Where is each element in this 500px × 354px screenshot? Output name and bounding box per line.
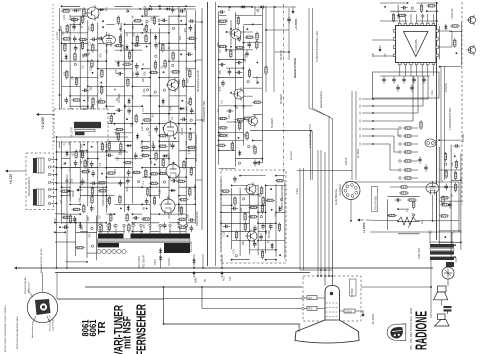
resistor	[187, 37, 197, 39]
svg-text:470: 470	[259, 192, 262, 197]
transistor BC148 sieb	[244, 182, 256, 196]
capacitor	[65, 126, 69, 133]
wire	[169, 60, 195, 62]
wire	[258, 211, 266, 213]
junction	[100, 82, 102, 84]
dashed block ABLENKEINHEIT	[26, 153, 54, 210]
junction	[120, 208, 122, 210]
IC pin wire	[438, 30, 452, 32]
wire	[380, 20, 408, 22]
junction	[243, 67, 245, 69]
transformer TON-NST bar1	[430, 244, 454, 248]
resistor	[256, 31, 258, 41]
junction	[69, 95, 71, 97]
junction	[436, 20, 438, 22]
dashed divider	[52, 4, 54, 150]
resistor	[221, 190, 231, 192]
junction	[173, 162, 175, 164]
junction	[270, 188, 272, 190]
tuner control wire	[308, 8, 310, 108]
junction	[141, 23, 143, 25]
resistor	[145, 7, 147, 17]
junction	[220, 222, 222, 224]
wire	[429, 232, 431, 244]
junction	[350, 220, 352, 222]
junction	[218, 149, 220, 151]
capacitor	[119, 180, 123, 187]
capacitor	[127, 169, 131, 176]
wire	[258, 240, 285, 242]
junction	[265, 231, 267, 233]
junction	[220, 211, 222, 213]
CRT grid electrode	[326, 311, 339, 313]
resistor	[234, 196, 236, 206]
resistor	[98, 190, 108, 192]
wire	[142, 15, 159, 17]
terminal	[119, 152, 121, 154]
capacitor	[72, 9, 79, 13]
IC pin wire	[416, 14, 418, 23]
wire	[106, 167, 114, 169]
tap terminal	[159, 224, 161, 226]
wire	[390, 10, 416, 12]
junction	[79, 222, 81, 224]
cable wire	[311, 131, 313, 180]
junction	[231, 204, 233, 206]
wire	[106, 23, 114, 25]
junction	[59, 226, 61, 228]
wire	[413, 177, 418, 179]
svg-text:0,5: 0,5	[82, 65, 85, 69]
svg-text:220: 220	[79, 7, 82, 12]
wire	[62, 60, 88, 62]
junction	[127, 10, 129, 12]
terminal	[146, 89, 148, 91]
wire	[219, 15, 227, 17]
rail	[458, 182, 460, 232]
connector junction	[372, 143, 374, 145]
resistor ladder	[403, 169, 413, 171]
junction	[178, 204, 180, 206]
resistor	[248, 68, 250, 78]
capacitor	[231, 207, 238, 211]
wire	[231, 188, 233, 249]
resistor	[177, 218, 187, 220]
wire	[196, 21, 202, 23]
speaker rail	[430, 259, 432, 318]
resistor	[117, 15, 119, 25]
resistor	[387, 214, 397, 216]
junction	[56, 189, 58, 191]
wire	[132, 222, 159, 224]
wire	[219, 140, 244, 142]
resistor	[155, 151, 157, 161]
resistor	[145, 23, 147, 33]
transformer TON-NST bar2	[430, 251, 454, 254]
junction	[105, 222, 107, 224]
wire	[243, 6, 252, 8]
capacitor	[178, 9, 185, 13]
connector stub	[362, 135, 373, 137]
wire	[370, 231, 462, 233]
transformer tap	[169, 227, 171, 233]
capacitor	[444, 184, 448, 191]
junction	[149, 186, 151, 188]
svg-text:220: 220	[114, 168, 117, 173]
wire	[439, 26, 441, 60]
junction	[132, 49, 134, 51]
terminal	[451, 231, 453, 233]
terminal	[429, 231, 431, 233]
resistor	[444, 152, 446, 162]
wire	[106, 140, 132, 142]
IC pin wire	[404, 14, 406, 23]
junction	[56, 267, 58, 269]
coil horizontal deflection	[33, 189, 44, 206]
wire	[219, 105, 236, 107]
arrow B+400V	[362, 311, 365, 318]
resistor	[83, 7, 85, 17]
wire	[185, 10, 187, 230]
svg-text:+4 13V: +4 13V	[9, 173, 13, 184]
wire	[235, 105, 243, 107]
svg-text:0,5: 0,5	[186, 67, 189, 71]
resistor	[189, 69, 191, 79]
svg-text:220: 220	[150, 160, 153, 165]
tap terminal	[185, 224, 187, 226]
wire	[261, 7, 263, 163]
resistor	[91, 186, 93, 196]
svg-text:5n6: 5n6	[219, 70, 222, 75]
junction	[56, 167, 58, 169]
wire	[186, 85, 195, 87]
resistor	[235, 47, 245, 49]
wire	[220, 178, 222, 252]
block border	[297, 170, 352, 172]
wire	[218, 12, 220, 165]
connector stub	[362, 120, 373, 122]
coil vertical deflection	[33, 158, 44, 173]
svg-text:8061: 8061	[81, 319, 92, 337]
svg-text:6,8: 6,8	[63, 71, 66, 75]
resistor	[440, 204, 450, 206]
svg-text:Netzschalter am: Netzschalter am	[49, 315, 52, 331]
svg-text:PL500: PL500	[181, 127, 184, 135]
capacitor	[189, 25, 193, 32]
connector junction	[372, 112, 374, 114]
resistor	[61, 10, 71, 12]
junction	[141, 167, 143, 169]
resistor	[397, 14, 407, 16]
resistor	[128, 223, 130, 233]
section divider	[215, 2, 217, 266]
junction	[163, 71, 165, 73]
junction	[218, 132, 220, 134]
junction	[97, 158, 99, 160]
resistor	[110, 213, 112, 223]
IC pin wire	[438, 46, 452, 48]
svg-text:Lautst.Regler: Lautst.Regler	[52, 318, 55, 331]
transformer tap	[115, 227, 117, 233]
wire	[98, 123, 115, 125]
wire	[98, 60, 107, 62]
resistor	[72, 99, 82, 101]
capacitor	[259, 234, 263, 241]
wire	[142, 167, 169, 169]
section divider	[436, 2, 438, 240]
svg-text:REGELSTUFE: REGELSTUFE	[293, 58, 297, 78]
junction	[83, 144, 85, 146]
svg-text:470: 470	[105, 6, 108, 11]
wire	[70, 95, 88, 97]
wire	[234, 12, 236, 166]
junction	[139, 8, 141, 10]
wire	[159, 105, 179, 107]
junction	[124, 23, 126, 25]
junction	[460, 179, 462, 181]
long wire	[57, 136, 129, 138]
resistor	[119, 195, 121, 205]
CRT feed	[331, 240, 333, 286]
junction	[444, 236, 446, 238]
resistor	[256, 40, 258, 50]
junction	[61, 167, 63, 169]
wire	[240, 204, 266, 206]
top bus wire	[62, 8, 196, 10]
junction	[243, 59, 245, 61]
svg-text:16-5KV: 16-5KV	[168, 258, 171, 266]
junction	[146, 46, 148, 48]
wire	[80, 222, 88, 224]
junction	[59, 94, 61, 96]
junction	[158, 123, 160, 125]
svg-text:BA: BA	[219, 132, 222, 136]
deflection rail	[66, 175, 68, 269]
wire	[351, 91, 353, 180]
svg-text:an Tuner: an Tuner	[290, 151, 293, 160]
junction	[275, 175, 277, 177]
wire	[438, 147, 440, 245]
wire	[239, 188, 241, 256]
bus wire	[85, 286, 302, 288]
deflection rail	[56, 137, 58, 268]
wire	[125, 105, 133, 107]
junction	[141, 105, 143, 107]
junction	[397, 208, 399, 210]
wire	[398, 208, 409, 210]
resistor	[158, 145, 168, 147]
resistor	[261, 186, 263, 196]
wire	[447, 279, 449, 286]
junction	[79, 150, 81, 152]
wire	[87, 20, 89, 206]
bus wire	[164, 323, 301, 325]
junction	[158, 140, 160, 142]
wire	[221, 231, 250, 233]
long wire	[57, 151, 129, 153]
wire	[179, 123, 195, 125]
junction	[243, 6, 245, 8]
resistor	[91, 59, 93, 69]
svg-text:PY88: PY88	[178, 205, 181, 212]
junction	[275, 249, 277, 251]
wire	[235, 15, 262, 17]
resistor	[252, 101, 262, 103]
dashed block picture tube	[303, 276, 361, 321]
sub-section dash-dot boundary	[283, 4, 285, 180]
resistor	[154, 60, 156, 70]
junction	[87, 49, 89, 51]
capacitor	[253, 241, 257, 248]
wire	[219, 149, 236, 151]
wire	[243, 23, 252, 25]
junction	[101, 173, 103, 175]
wire	[179, 186, 195, 188]
dashed block AMPLITUDENSIEB	[221, 170, 286, 263]
terminal	[399, 160, 401, 162]
svg-text:0,5: 0,5	[106, 204, 109, 208]
resistor	[164, 203, 166, 213]
wire	[235, 158, 262, 160]
capacitor	[287, 17, 291, 24]
svg-text:220: 220	[116, 156, 119, 161]
wire	[169, 222, 179, 224]
wire	[62, 158, 71, 160]
wire	[221, 204, 232, 206]
transformer tap	[140, 227, 142, 233]
svg-text:+2 225V: +2 225V	[41, 116, 45, 129]
resistor	[254, 145, 256, 155]
svg-text:0,5: 0,5	[99, 162, 102, 166]
wire	[131, 22, 133, 204]
IC pin wire	[410, 14, 412, 23]
diode top	[259, 5, 265, 8]
junction	[257, 62, 259, 64]
resistor	[149, 182, 159, 184]
resistor	[75, 149, 77, 159]
capacitor	[154, 42, 158, 49]
wire	[380, 2, 408, 4]
resistor	[75, 77, 77, 87]
right column wire	[440, 66, 442, 180]
junction	[180, 20, 182, 22]
junction	[249, 240, 251, 242]
wire	[169, 85, 179, 87]
wire	[106, 195, 114, 197]
wire	[159, 42, 169, 44]
svg-text:22n: 22n	[71, 178, 74, 183]
svg-text:15KV: 15KV	[154, 259, 157, 265]
wire	[317, 297, 325, 299]
svg-text:4,7k: 4,7k	[149, 131, 152, 136]
wire	[439, 230, 461, 232]
junction	[243, 42, 245, 44]
capacitor	[255, 161, 262, 165]
diode	[165, 7, 171, 10]
wire	[80, 132, 98, 134]
svg-text:RG: RG	[308, 296, 312, 300]
wire	[76, 231, 97, 233]
svg-text:St-A502: St-A502	[357, 148, 360, 158]
junction	[324, 275, 326, 277]
svg-text:1M: 1M	[144, 217, 147, 220]
resistor	[162, 43, 164, 53]
diode	[154, 34, 157, 40]
resistor	[78, 38, 88, 40]
wire	[266, 185, 285, 187]
svg-text:ZEILENEND: ZEILENEND	[195, 211, 199, 226]
resistor	[153, 196, 155, 206]
resistor	[66, 70, 68, 80]
capacitor	[226, 109, 233, 113]
CRT cathode dot	[330, 292, 333, 295]
wire	[115, 203, 143, 205]
svg-text:ABLENKEINHEIT ATC40: ABLENKEINHEIT ATC40	[40, 248, 43, 273]
svg-text:6,8: 6,8	[60, 199, 63, 203]
wire	[221, 222, 250, 224]
tap terminal	[169, 224, 171, 226]
svg-text:BILD-TR: BILD-TR	[71, 127, 74, 137]
capacitor	[134, 152, 138, 159]
junction	[87, 140, 89, 142]
arrow +1 225V	[357, 219, 364, 222]
junction	[218, 77, 220, 79]
svg-text:4,7k: 4,7k	[232, 249, 235, 254]
IC pin wire	[399, 14, 401, 23]
svg-text:ZEILENE: ZEILENE	[190, 241, 193, 252]
svg-text:BC148/3: BC148/3	[271, 118, 274, 128]
junction	[220, 194, 222, 196]
capacitor electrolytic	[444, 306, 452, 312]
wire	[221, 254, 223, 268]
resistor	[92, 97, 94, 107]
junction	[141, 140, 143, 142]
svg-text:0,5: 0,5	[185, 141, 188, 145]
junction	[132, 49, 134, 51]
wire	[70, 203, 80, 205]
junction	[87, 60, 89, 62]
resistor	[60, 190, 70, 192]
resistor	[243, 117, 253, 119]
resistor	[454, 171, 456, 181]
bus wire	[55, 272, 310, 274]
tap terminal	[140, 224, 142, 226]
wire	[51, 203, 57, 205]
wire	[132, 49, 142, 51]
wire	[304, 308, 307, 310]
connector stub	[362, 105, 373, 107]
transformer tap	[179, 227, 181, 233]
IC pin wire	[432, 65, 434, 76]
capacitor	[245, 50, 249, 57]
svg-text:6,8: 6,8	[187, 79, 190, 83]
tap terminal	[149, 224, 151, 226]
deflection connector	[48, 173, 50, 175]
capacitor	[418, 157, 422, 164]
junction	[432, 220, 434, 222]
wire	[451, 232, 453, 244]
wire	[196, 179, 202, 181]
junction	[124, 105, 126, 107]
junction	[174, 137, 176, 139]
wire	[150, 186, 169, 188]
lamp pilot	[442, 267, 454, 279]
transformer BILD-TR core	[74, 122, 101, 128]
diode damper	[192, 258, 195, 264]
junction	[397, 220, 399, 222]
capacitor	[247, 41, 251, 48]
capacitor	[74, 45, 78, 52]
